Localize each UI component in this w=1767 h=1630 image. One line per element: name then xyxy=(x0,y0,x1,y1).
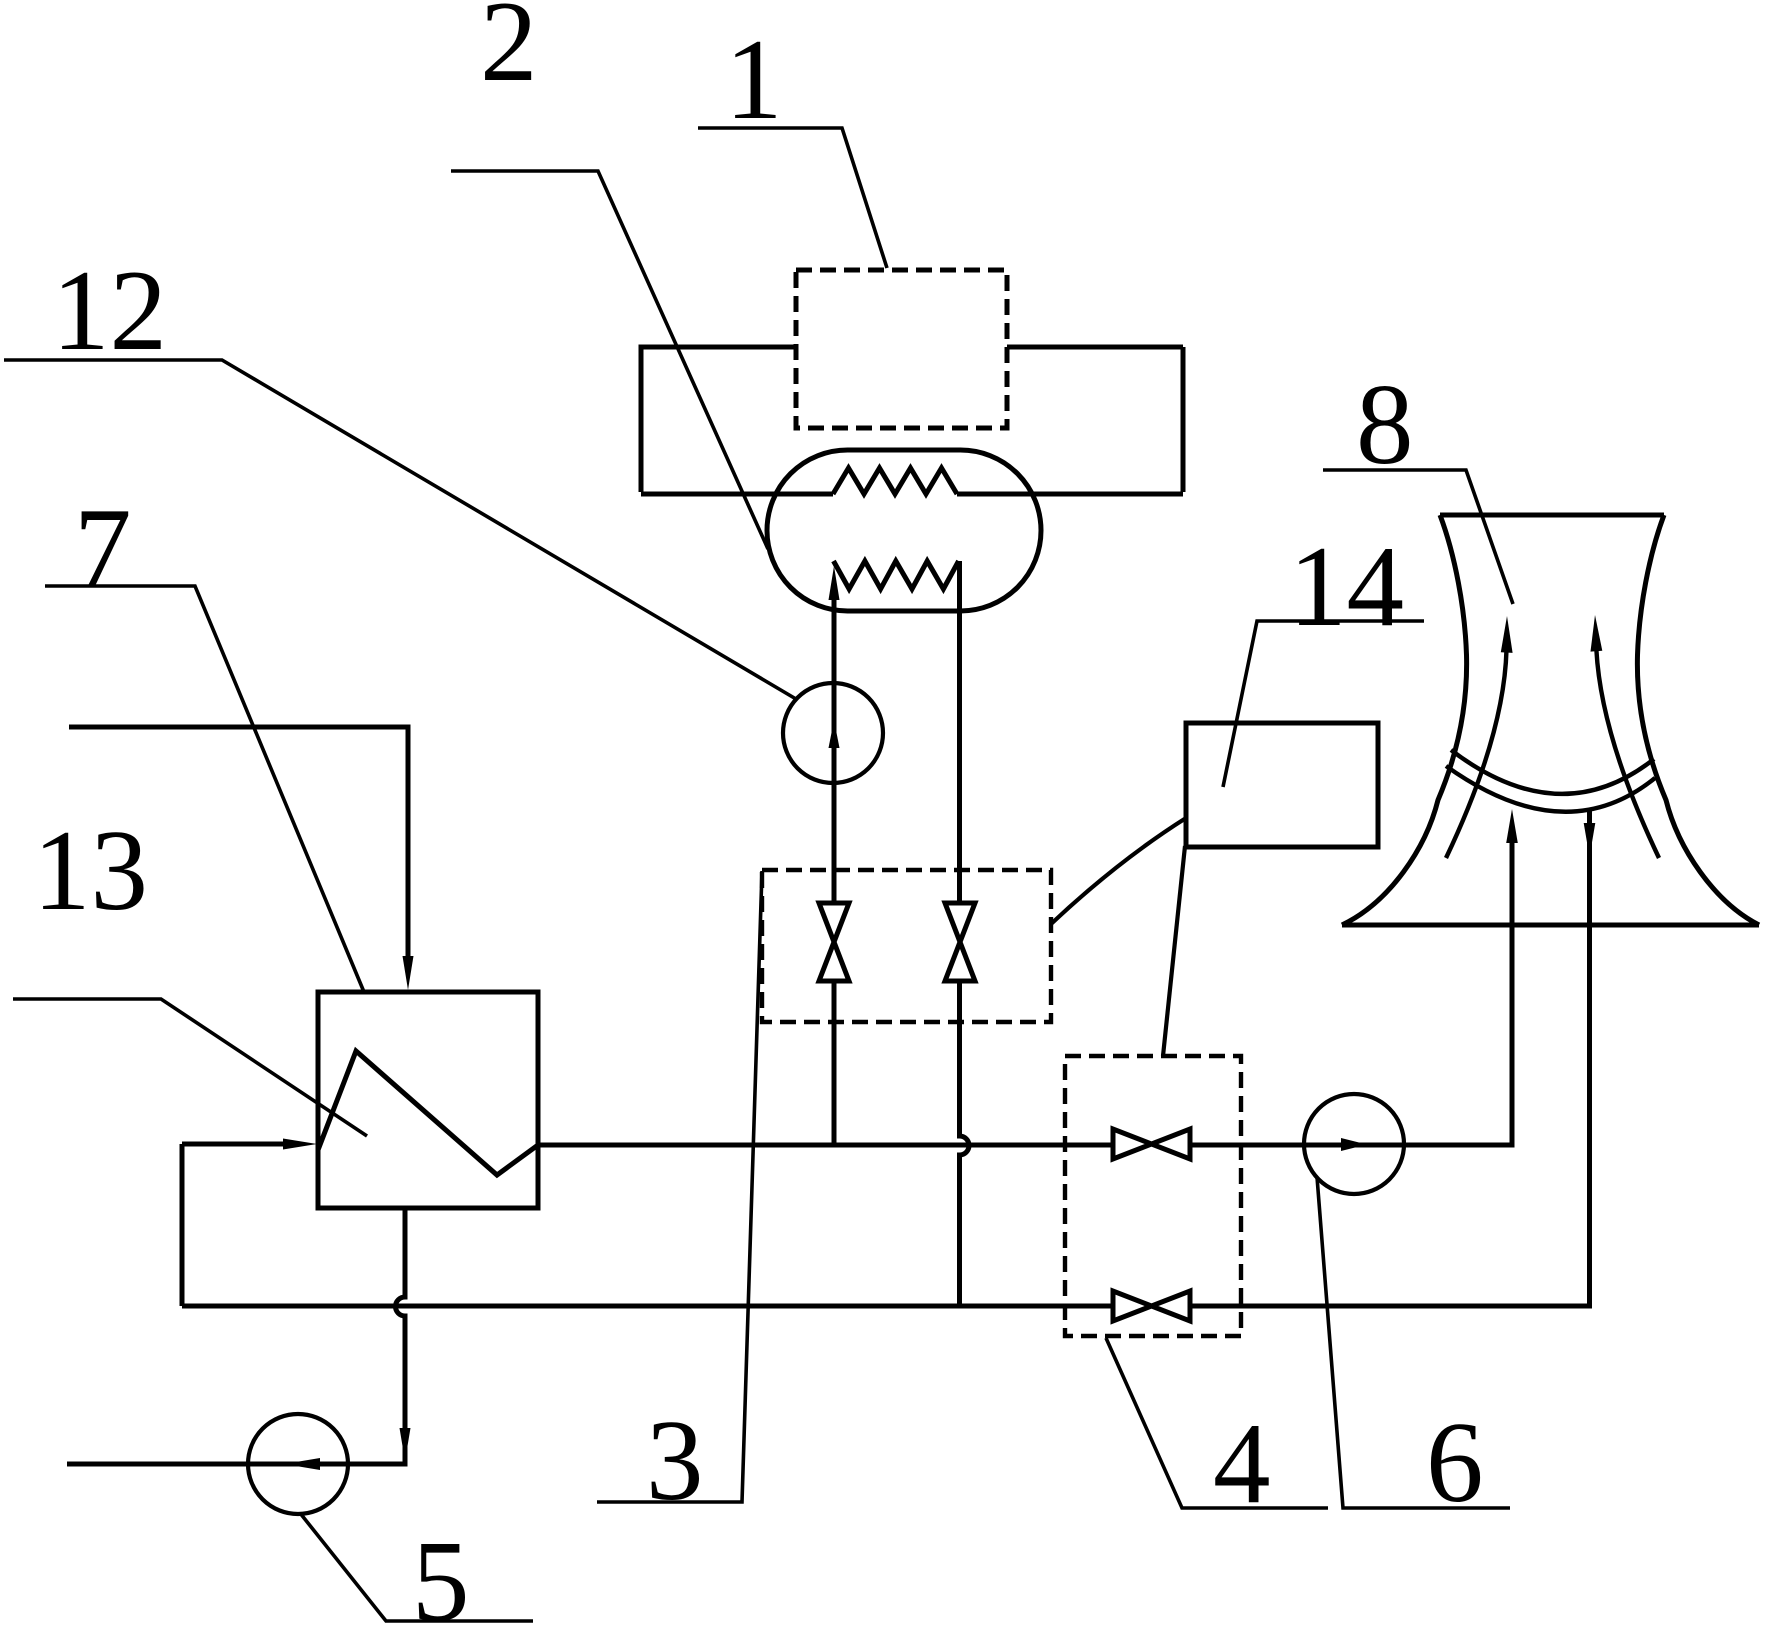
leader 7 xyxy=(45,586,364,992)
svg-text:8: 8 xyxy=(1356,361,1414,488)
svg-text:14: 14 xyxy=(1289,523,1404,650)
arrow down in tower (downcomer) xyxy=(1584,823,1596,857)
feed line into exchanger top xyxy=(69,727,408,958)
air flow arrow right xyxy=(1596,650,1659,858)
valve box 4 dashed xyxy=(1065,1056,1241,1336)
arrow up into condenser xyxy=(829,566,840,600)
cooling tower 8 shell xyxy=(1342,515,1759,925)
svg-text:12: 12 xyxy=(52,247,167,374)
valve V3 (top, horizontal bowtie) xyxy=(1113,1129,1190,1159)
arrow inside pump 12 xyxy=(829,720,840,748)
arrow down at outlet corner xyxy=(400,1428,411,1461)
leader 2 xyxy=(451,171,768,549)
pump 12 circle xyxy=(783,683,883,783)
pump 5 circle xyxy=(248,1414,348,1514)
svg-text:13: 13 xyxy=(33,807,148,934)
arrow up into tower (riser) xyxy=(1506,809,1518,843)
arrow right inside pump 6 xyxy=(1341,1138,1367,1151)
return line xyxy=(182,811,1590,1306)
left riser pipe xyxy=(832,600,837,1145)
valve box 3 dashed xyxy=(762,870,1051,1022)
condenser 2 capsule shell xyxy=(767,450,1041,611)
svg-text:4: 4 xyxy=(1213,1400,1271,1527)
exchanger bottom outlet pipe with hop xyxy=(67,1208,405,1464)
left drop pipe xyxy=(180,1144,185,1306)
condenser housing rectangle xyxy=(641,347,1183,494)
inlet line with arrow into exchanger left xyxy=(182,1142,283,1147)
unit 1 dashed box xyxy=(796,270,1007,428)
arrow left inside pump 5 xyxy=(284,1458,320,1470)
valve V1 (left, vertical bowtie) xyxy=(819,903,849,981)
leader 13 xyxy=(13,999,367,1136)
control link box14 to box4 xyxy=(1163,846,1185,1056)
svg-text:3: 3 xyxy=(646,1397,704,1524)
right riser pipe xyxy=(960,561,970,1306)
heating coil zigzag (bottom) xyxy=(834,561,959,589)
control link box3 to box14 xyxy=(1051,818,1186,924)
leader 6 xyxy=(1317,1177,1510,1508)
leader 12 xyxy=(4,360,796,699)
svg-text:6: 6 xyxy=(1426,1399,1484,1526)
svg-text:7: 7 xyxy=(74,485,132,612)
leader 5 xyxy=(300,1513,533,1621)
heat exchanger 7 box xyxy=(318,992,538,1208)
heating coil zigzag (top) xyxy=(833,468,957,494)
arrow down into exchanger xyxy=(403,956,414,990)
main supply line xyxy=(538,840,1512,1145)
svg-text:1: 1 xyxy=(725,16,783,143)
leader 1 xyxy=(698,128,887,268)
valve V2 (right, vertical bowtie) xyxy=(945,903,975,981)
controller box 14 xyxy=(1186,723,1378,847)
air flow arrow left xyxy=(1446,650,1507,858)
leader 8 xyxy=(1323,470,1513,604)
leader 4 xyxy=(1106,1338,1328,1508)
leader lines xyxy=(4,128,1513,1621)
heat exchanger coil diagonal xyxy=(318,1051,538,1175)
svg-text:2: 2 xyxy=(480,0,538,105)
leader 14 xyxy=(1223,621,1424,787)
tower basin arcs xyxy=(1451,750,1654,794)
pump 6 circle xyxy=(1304,1094,1404,1194)
valve V4 (bottom, horizontal bowtie) xyxy=(1113,1291,1190,1321)
leader 3 xyxy=(597,871,762,1502)
svg-text:5: 5 xyxy=(412,1518,470,1630)
